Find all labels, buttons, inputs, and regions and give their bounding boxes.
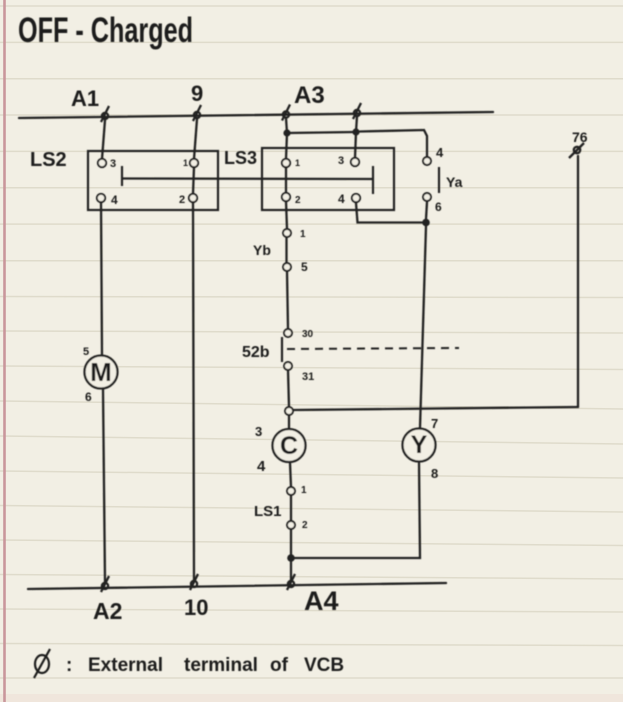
- terminal phi A2: [101, 576, 109, 592]
- svg-text:Y: Y: [411, 431, 428, 459]
- svg-text:3: 3: [338, 155, 344, 167]
- wire LS3 closed blade 1-2: [285, 167, 287, 193]
- Yb contact 5: [283, 260, 308, 274]
- svg-text:52b: 52b: [242, 344, 270, 361]
- title OFF - Charged: [18, 11, 193, 50]
- svg-text:7: 7: [431, 416, 438, 431]
- svg-text:4: 4: [338, 192, 345, 206]
- switch box LS3: [262, 148, 394, 210]
- wire A1 terminal to LS2 contact 3: [102, 120, 105, 159]
- node dot1: [283, 129, 290, 136]
- svg-text:4: 4: [111, 193, 118, 207]
- svg-text:LS1: LS1: [254, 503, 282, 520]
- node dot3: [287, 554, 295, 562]
- svg-text:A2: A2: [93, 598, 122, 624]
- wire Ya contact 6 to node dot4: [426, 202, 427, 219]
- Yb contact 1: [283, 229, 306, 240]
- LS1 contact 1: [287, 485, 307, 496]
- svg-text:8: 8: [431, 466, 438, 481]
- wire motor M to bottom bus A2: [103, 389, 105, 582]
- terminal phi A3 right: [353, 103, 361, 119]
- wire LS2 contact 4 to motor M: [101, 202, 102, 355]
- legend phi symbol: [34, 649, 50, 678]
- wire node J to coil C: [288, 415, 290, 430]
- wire node dot3 to coil Y bottom: [294, 462, 420, 558]
- 52b moving contact: [281, 337, 283, 362]
- wire node dot4 to coil Y top: [420, 226, 426, 428]
- terminal phi A3 left: [282, 105, 290, 121]
- svg-text:1: 1: [301, 485, 307, 496]
- wire 9 terminal to LS2 contact 1: [194, 119, 197, 159]
- svg-text:4: 4: [436, 145, 444, 160]
- svg-text:A4: A4: [304, 586, 339, 616]
- svg-text:LS3: LS3: [224, 148, 257, 168]
- wire dot2 to Ya contact 4: [360, 130, 427, 157]
- LS2 actuator bar: [121, 166, 123, 186]
- svg-text:3: 3: [255, 424, 262, 439]
- wire LS3 contact 4 to node dot4: [356, 203, 422, 223]
- wire A3 second terminal to node dot2: [356, 116, 357, 132]
- LS2 contact 3: [98, 158, 116, 170]
- svg-text:5: 5: [83, 346, 89, 358]
- svg-text:OFF - Charged: OFF - Charged: [18, 11, 193, 50]
- terminal phi 10: [190, 574, 198, 590]
- LS2 contact 2: [179, 194, 197, 206]
- svg-text:C: C: [280, 432, 298, 460]
- svg-text:LS2: LS2: [30, 149, 67, 171]
- wire LS2 contact 2 to bottom bus 10: [193, 202, 194, 581]
- wire 76 terminal vertical: [577, 156, 579, 407]
- svg-text:A3: A3: [294, 82, 325, 109]
- motor M: [85, 356, 118, 389]
- svg-text:1: 1: [295, 158, 300, 168]
- wire top bus A1-A3: [19, 112, 493, 118]
- svg-text:76: 76: [572, 129, 588, 145]
- 52b contact 31: [284, 362, 314, 383]
- LS3 contact 1: [282, 158, 300, 168]
- coil C: [273, 429, 306, 462]
- LS3 contact 4: [338, 192, 360, 206]
- svg-text:M: M: [90, 357, 112, 387]
- wire Yb moving contact: [285, 236, 287, 263]
- wire LS1 contact 2 to node dot3: [290, 529, 292, 558]
- svg-text:1: 1: [300, 229, 306, 240]
- wire LS1 moving contact: [290, 495, 292, 521]
- Ya moving contact: [438, 167, 440, 193]
- LS2 contact 4: [97, 193, 118, 207]
- coil Y: [403, 429, 436, 462]
- 52b dashed actuator line: [287, 348, 459, 349]
- wire node J to 76 line: [293, 407, 578, 410]
- terminal phi A1: [101, 106, 109, 122]
- svg-text:3: 3: [110, 158, 116, 170]
- svg-text:6: 6: [435, 200, 442, 214]
- wire coil C to LS1 contact 1: [290, 463, 291, 488]
- svg-text:2: 2: [179, 194, 185, 206]
- svg-text:10: 10: [184, 595, 208, 620]
- actuator rod LS2-LS3: [122, 177, 373, 180]
- switch box LS2: [88, 151, 218, 210]
- svg-text:9: 9: [191, 81, 203, 106]
- wire node dot3 to bottom bus A4: [290, 558, 292, 581]
- svg-text:4: 4: [257, 458, 266, 475]
- svg-text:A1: A1: [71, 86, 99, 111]
- terminal phi A4: [287, 574, 295, 590]
- wire LS2 closed blade 1-2: [193, 167, 194, 194]
- Ya contact 4: [423, 145, 444, 165]
- LS3 contact 2: [282, 193, 301, 206]
- wire LS3 contact 2 to Yb contact 1: [286, 201, 287, 229]
- svg-text:5: 5: [301, 260, 308, 274]
- wire A3 terminal to node dot1: [286, 118, 287, 133]
- wire Yb contact 5 to 52b contact 30: [287, 271, 288, 329]
- wire node dot1 to LS3 contact 1: [286, 133, 287, 159]
- svg-text:2: 2: [302, 520, 308, 531]
- svg-text:30: 30: [302, 329, 314, 340]
- LS1 contact 2: [287, 520, 308, 531]
- LS3 contact 3: [338, 155, 359, 167]
- node dot2: [352, 128, 359, 135]
- LS2 contact 1: [183, 158, 198, 168]
- svg-text:1: 1: [183, 158, 188, 168]
- svg-text:Yb: Yb: [253, 242, 271, 258]
- 52b contact 30: [284, 329, 314, 340]
- wire 52b contact 31 to node J: [288, 370, 289, 407]
- svg-text:31: 31: [302, 371, 314, 383]
- svg-text:Ya: Ya: [446, 174, 463, 190]
- wire dot1 to dot2: [287, 132, 356, 133]
- LS3 actuator bar: [372, 166, 374, 194]
- terminal phi 76: [569, 143, 584, 158]
- wire node dot2 to LS3 contact 3: [355, 132, 356, 158]
- svg-text:2: 2: [295, 195, 301, 206]
- wire bottom bus A2-A4: [28, 583, 446, 589]
- node dot4: [422, 219, 430, 227]
- svg-text:6: 6: [85, 390, 92, 404]
- node J junction: [285, 407, 293, 415]
- Ya contact 6: [423, 193, 442, 214]
- terminal phi 9: [193, 105, 201, 121]
